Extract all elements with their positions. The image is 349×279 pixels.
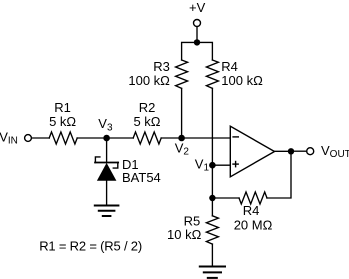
svg-text:5 kΩ: 5 kΩ bbox=[49, 114, 76, 129]
output terminal VOUT bbox=[307, 148, 314, 155]
wire bbox=[211, 198, 213, 216]
svg-text:R4: R4 bbox=[221, 59, 238, 74]
svg-text:10 kΩ: 10 kΩ bbox=[167, 227, 202, 242]
svg-text:R2: R2 bbox=[139, 100, 156, 115]
wire bbox=[275, 150, 292, 152]
svg-text:R1 = R2 = (R5 / 2): R1 = R2 = (R5 / 2) bbox=[39, 238, 142, 253]
resistor R4 feedback bbox=[239, 192, 267, 204]
svg-text:V1: V1 bbox=[195, 157, 210, 174]
wire bbox=[182, 42, 213, 60]
diode D1 schottky left hook bbox=[95, 157, 100, 163]
svg-text:V3: V3 bbox=[98, 116, 113, 134]
svg-text:VIN: VIN bbox=[0, 129, 18, 146]
node feedback junction bbox=[209, 195, 215, 201]
op-amp minus sign bbox=[233, 136, 238, 138]
resistor R2 bbox=[133, 132, 161, 144]
svg-text:VOUT: VOUT bbox=[321, 143, 349, 160]
wire bbox=[77, 137, 133, 139]
wire bbox=[294, 150, 306, 152]
svg-text:+V: +V bbox=[189, 0, 206, 15]
wire bbox=[211, 244, 213, 266]
wire bbox=[196, 27, 198, 43]
op-amp U1 bbox=[230, 126, 274, 177]
resistor R5 bbox=[206, 216, 218, 244]
svg-text:V2: V2 bbox=[175, 141, 190, 158]
wire bbox=[211, 165, 213, 198]
ground bbox=[95, 206, 119, 217]
wire bbox=[106, 181, 108, 206]
node V3 bbox=[103, 135, 110, 142]
resistor R1 bbox=[49, 132, 77, 144]
node supply junction bbox=[194, 39, 200, 45]
svg-text:5 kΩ: 5 kΩ bbox=[133, 114, 160, 129]
node V2 bbox=[178, 135, 185, 142]
node output junction bbox=[288, 148, 294, 154]
svg-text:100 kΩ: 100 kΩ bbox=[128, 73, 170, 88]
supply terminal +V bbox=[194, 20, 201, 27]
wire bbox=[211, 88, 213, 165]
diode D1 schottky right hook bbox=[113, 163, 118, 169]
resistor R3 bbox=[176, 60, 188, 88]
svg-text:R4: R4 bbox=[243, 203, 260, 218]
svg-text:R3: R3 bbox=[153, 59, 170, 74]
wire bbox=[182, 137, 231, 139]
input terminal VIN bbox=[25, 135, 32, 142]
node V1 bbox=[209, 162, 216, 169]
diode D1 cathode bar bbox=[95, 162, 118, 164]
wire bbox=[181, 88, 183, 138]
ground bbox=[200, 267, 225, 278]
svg-text:20 MΩ: 20 MΩ bbox=[234, 218, 273, 233]
wire bbox=[32, 137, 50, 139]
wire bbox=[212, 197, 239, 199]
wire bbox=[267, 151, 291, 198]
op-amp plus sign bbox=[233, 162, 238, 167]
svg-text:R1: R1 bbox=[54, 100, 71, 115]
wire bbox=[161, 137, 181, 139]
diode D1 triangle bbox=[97, 163, 117, 181]
wire bbox=[212, 164, 230, 166]
wire bbox=[106, 138, 108, 163]
svg-text:BAT54: BAT54 bbox=[122, 170, 161, 185]
svg-text:100 kΩ: 100 kΩ bbox=[221, 73, 263, 88]
resistor R4 bbox=[206, 60, 218, 88]
